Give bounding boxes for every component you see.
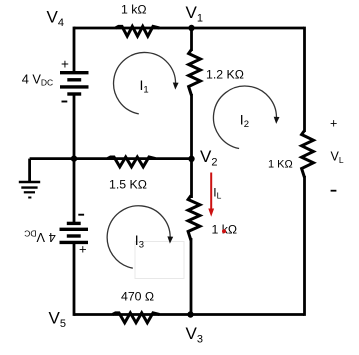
wire middle rail V2-V3 <box>190 238 193 316</box>
svg-text:I3: I3 <box>135 232 144 251</box>
svg-text:VL: VL <box>331 150 344 165</box>
resistor 1.5 KΩ <box>108 157 156 167</box>
wire right rail <box>303 27 306 132</box>
battery B2 4V bottom <box>60 223 89 242</box>
svg-text:V1: V1 <box>186 3 203 25</box>
current arrow IL red <box>208 173 214 217</box>
svg-text:+: + <box>79 241 87 256</box>
load minus <box>331 190 337 192</box>
svg-text:I1: I1 <box>140 77 149 96</box>
node V3 junction dot <box>187 311 193 317</box>
battery B2 minus <box>78 214 84 216</box>
wire left rail middle <box>73 95 76 224</box>
wire top: V4 to V1 to right rail <box>74 27 304 30</box>
resistor 1 kΩ middle <box>188 196 200 241</box>
svg-text:V5: V5 <box>49 308 66 330</box>
svg-text:V2: V2 <box>200 147 217 169</box>
mesh arrow I1 <box>114 52 179 113</box>
svg-text:1.2 KΩ: 1.2 KΩ <box>206 68 244 82</box>
svg-text:+: + <box>61 56 69 71</box>
battery B1 4V top <box>60 73 89 94</box>
svg-text:IL: IL <box>213 185 221 200</box>
wire right rail lower <box>303 176 306 316</box>
wire middle row: ground to V2 <box>30 157 192 160</box>
mesh arrow I3 <box>107 206 173 268</box>
red dot <box>222 229 226 233</box>
node V1 junction dot <box>188 25 194 31</box>
ground <box>19 159 40 198</box>
resistor 1.2 KΩ <box>189 50 201 96</box>
wire left rail lower <box>73 242 76 316</box>
svg-text:1.5 KΩ: 1.5 KΩ <box>109 178 147 192</box>
wire left rail upper <box>73 27 76 72</box>
resistor 470 Ω <box>113 313 160 323</box>
node V2 junction dot <box>188 156 194 162</box>
resistor 1 KΩ right <box>302 131 314 178</box>
wire middle rail <box>190 28 193 51</box>
wire bottom: V5 to V3 to right rail <box>74 313 304 316</box>
faint textbox outline <box>135 242 184 279</box>
svg-text:+: + <box>330 116 337 130</box>
svg-text:4 VDC: 4 VDC <box>22 71 54 87</box>
ground junction dot <box>71 155 77 161</box>
svg-text:I2: I2 <box>240 111 249 130</box>
resistor R top 1 kΩ <box>116 26 160 36</box>
svg-text:470 Ω: 470 Ω <box>121 290 154 304</box>
battery B1 minus <box>62 101 68 103</box>
svg-text:1 KΩ: 1 KΩ <box>268 159 293 171</box>
wire middle rail V1-V2 <box>190 94 193 198</box>
mesh arrow I2 <box>213 86 279 148</box>
svg-text:4 VDC: 4 VDC <box>24 229 56 245</box>
svg-text:1 kΩ: 1 kΩ <box>121 3 147 17</box>
svg-text:V4: V4 <box>47 7 64 29</box>
svg-text:V3: V3 <box>186 324 203 346</box>
